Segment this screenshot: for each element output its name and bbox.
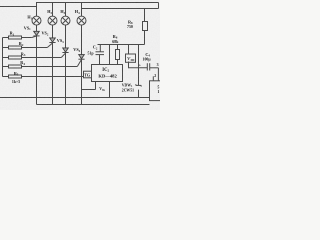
svg-text:1: 1 [158,90,160,94]
svg-text:5: 5 [158,86,160,90]
